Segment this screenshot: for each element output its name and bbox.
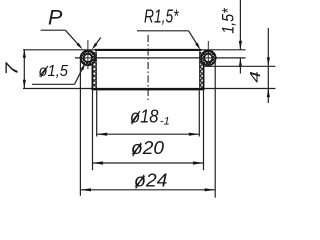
left wall hatch: [92, 52, 97, 90]
label R1,5* shelf: [137, 30, 189, 32]
left wall inner edge: [95, 51, 97, 90]
rim centre height line (curl centres / dim 1.5* lower extension): [75, 57, 246, 59]
left curl centre marks: [79, 57, 97, 59]
label dia 1,5 leader: [75, 66, 85, 85]
svg-text:ø1,5: ø1,5: [39, 63, 69, 80]
dim 4 upper extension line: [204, 65, 276, 67]
dim 1,5*: dimension line below: [239, 58, 241, 73]
far rim silhouette (top thick line): [95, 49, 201, 51]
top extension line (shared by dim 7 and dim 1.5*): [23, 49, 246, 51]
dim 4 dimension line: [267, 28, 269, 103]
right wall outer edge: [203, 52, 205, 89]
dim dia18-1: dimension line: [97, 133, 200, 135]
dia slash overlays (GOST style long slash): [41, 66, 48, 78]
right curl outer arc: [201, 51, 216, 66]
right curl (rolled rim): [200, 50, 216, 66]
right curl centre marks: [199, 57, 218, 59]
label P leader: [65, 30, 81, 47]
dim dia24: dimension line: [80, 189, 215, 191]
dim 7 down arrow: [23, 80, 26, 89]
dim dia24: extension lines: [79, 60, 81, 196]
label P shelf: [41, 29, 66, 31]
left curl (rolled rim): [80, 50, 96, 66]
seam leader arrow (right of left curl): [94, 38, 101, 48]
svg-text:-1: -1: [160, 115, 170, 127]
svg-text:P: P: [48, 6, 63, 30]
bottom extension line (shared by dim 7 and dim 4): [23, 88, 276, 90]
axis centerline: [147, 35, 149, 101]
svg-text:ø20: ø20: [131, 138, 164, 158]
part bottom (thick line): [92, 88, 205, 90]
label R1,5* leader: [189, 31, 199, 48]
dim dia18-1: extension lines: [96, 91, 98, 137]
svg-text:R1,5*: R1,5*: [144, 6, 179, 26]
dim dia20: extension lines: [92, 91, 94, 171]
right wall hatch: [199, 52, 204, 90]
svg-text:1,5*: 1,5*: [220, 8, 238, 34]
left curl inner hole (dia 1.5): [84, 54, 92, 62]
dim 1,5*: dimension line above: [239, 0, 241, 49]
dim 7: extension stubs handled by shared lines; dimension line: [23, 49, 25, 88]
svg-text:7: 7: [2, 61, 22, 76]
label dia 1,5 shelf: [32, 83, 75, 85]
dim dia20: dimension line: [93, 162, 204, 164]
left wall outer edge: [91, 52, 93, 89]
right wall inner edge: [199, 51, 201, 90]
right curl inner hole: [204, 54, 212, 62]
svg-text:4: 4: [246, 71, 263, 83]
svg-text:ø18: ø18: [130, 106, 159, 126]
left curl outer arc: [81, 51, 96, 66]
svg-text:ø24: ø24: [134, 170, 168, 191]
dim 7 up arrow: [23, 49, 26, 58]
